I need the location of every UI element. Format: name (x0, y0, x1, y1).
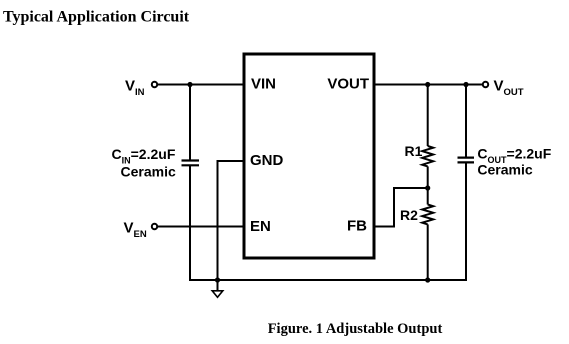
ground symbol (212, 291, 223, 297)
svg-text:R2: R2 (400, 207, 418, 223)
terminal VOUT circle (483, 82, 488, 87)
wire GND stub (218, 160, 245, 162)
svg-text:VIN: VIN (251, 76, 276, 93)
wire CIN bottom lead (189, 166, 191, 281)
svg-text:R1: R1 (405, 143, 423, 159)
capacitor COUT (458, 158, 475, 163)
svg-text:VIN: VIN (125, 78, 145, 99)
wire COUT top lead (465, 85, 467, 157)
wire VIN input (158, 84, 244, 86)
junction dot GND rail (215, 277, 220, 282)
junction dot R2 rail (425, 277, 430, 282)
IC U1 box (244, 54, 374, 258)
junction dot R1 tap (425, 82, 430, 87)
svg-text:VOUT: VOUT (494, 78, 524, 99)
wire GND down (217, 160, 219, 281)
wire ground stub (217, 280, 219, 291)
resistor R1 (422, 146, 433, 166)
svg-text:Ceramic: Ceramic (121, 164, 176, 180)
svg-text:Ceramic: Ceramic (477, 162, 532, 178)
junction dot FB node (425, 185, 430, 190)
wire R1 top lead (427, 85, 429, 147)
wire R2 top lead (427, 188, 429, 205)
capacitor CIN (182, 161, 200, 166)
wire ground rail (190, 279, 466, 281)
svg-text:VEN: VEN (124, 220, 147, 241)
terminal VEN circle (152, 224, 157, 229)
junction dot CIN tap (187, 82, 192, 87)
wire R1 bottom lead (427, 166, 429, 188)
svg-text:Typical Application Circuit: Typical Application Circuit (3, 9, 190, 26)
wire COUT bottom lead (465, 163, 467, 281)
svg-text:EN: EN (250, 218, 271, 235)
svg-text:GND: GND (250, 152, 284, 169)
wire CIN top lead (189, 85, 191, 160)
wire EN input (158, 226, 244, 228)
wire FB jog (374, 188, 428, 227)
junction dot COUT tap (463, 82, 468, 87)
wire R2 bottom lead (427, 224, 429, 281)
svg-text:FB: FB (347, 218, 367, 235)
wire VOUT output (374, 84, 482, 86)
svg-text:Figure. 1 Adjustable Output: Figure. 1 Adjustable Output (268, 321, 443, 337)
svg-text:VOUT: VOUT (327, 76, 369, 93)
terminal VIN circle (152, 82, 157, 87)
resistor R2 (422, 205, 433, 225)
